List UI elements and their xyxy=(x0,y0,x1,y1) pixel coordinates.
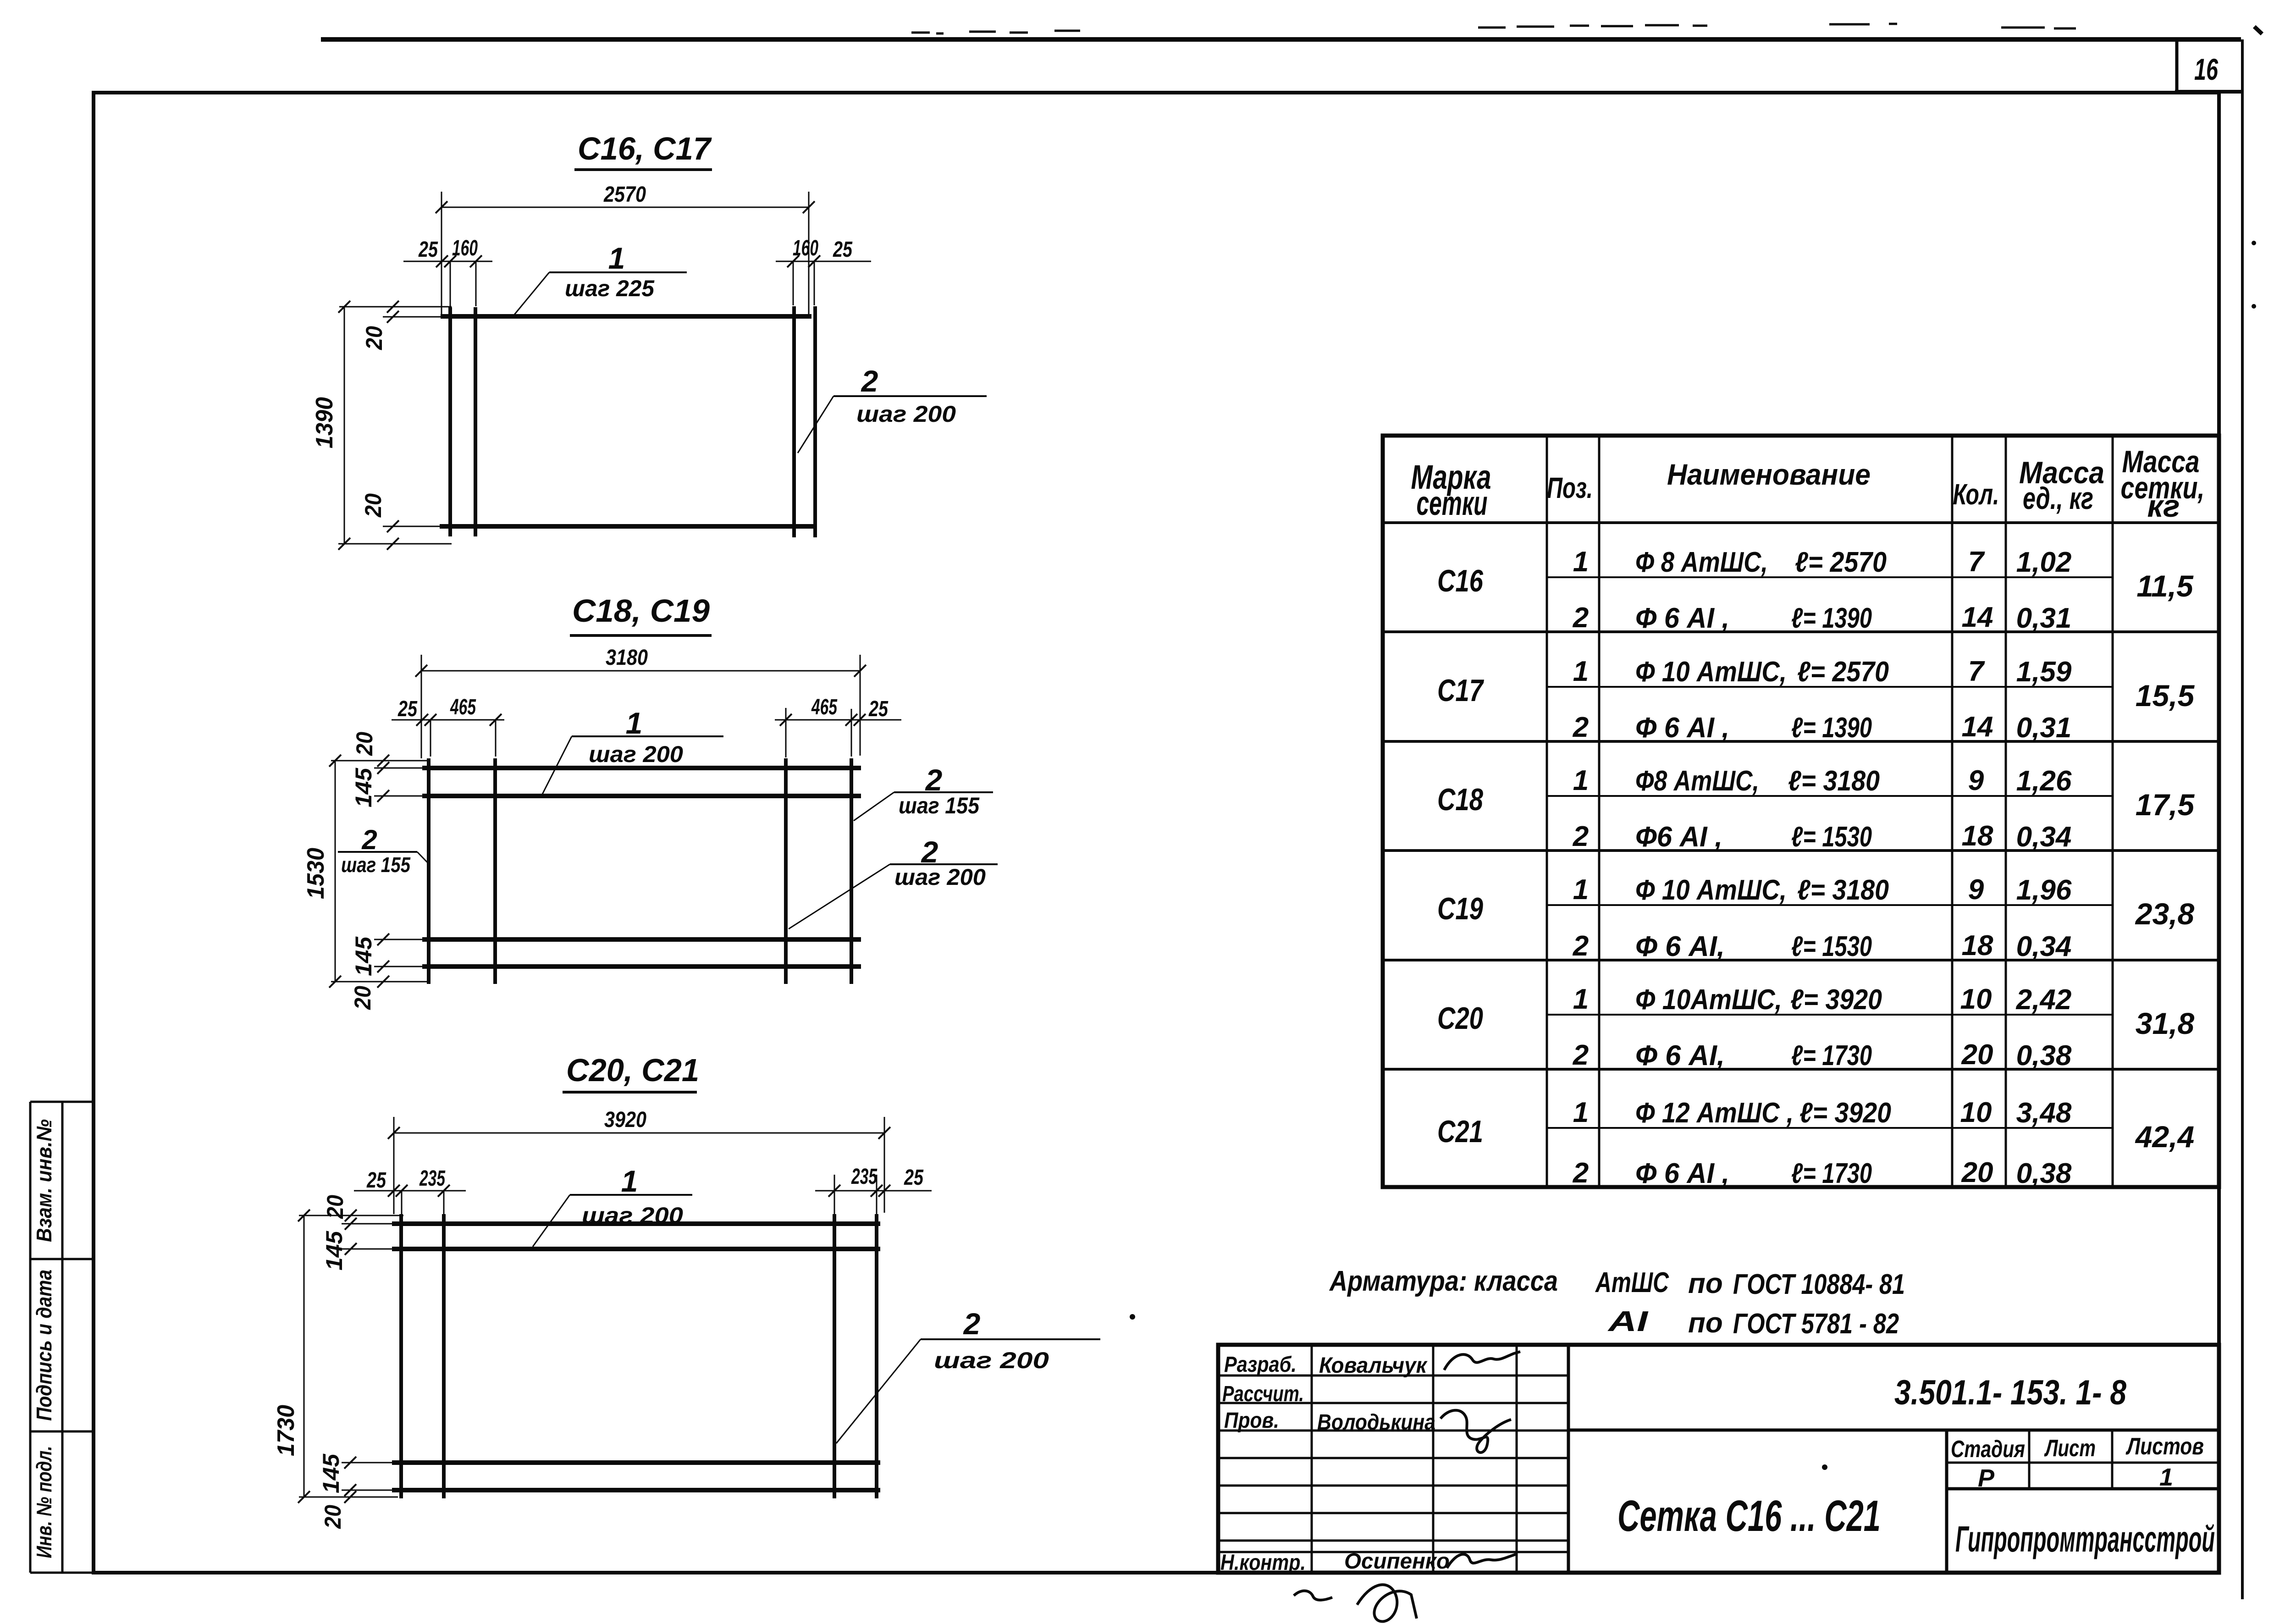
table grid xyxy=(1383,436,2219,1187)
leader pos 2 left xyxy=(338,851,417,853)
svg-text:Стадия: Стадия xyxy=(1951,1436,2025,1463)
leader pos 2 right lower xyxy=(890,863,998,865)
svg-text:7: 7 xyxy=(1968,546,1985,578)
svg-text:ГОСТ 5781 - 82: ГОСТ 5781 - 82 xyxy=(1733,1308,1899,1340)
svg-text:3,48: 3,48 xyxy=(2016,1097,2072,1129)
svg-text:С21: С21 xyxy=(1437,1114,1483,1149)
svg-text:Пров.: Пров. xyxy=(1224,1409,1279,1433)
svg-text:кг: кг xyxy=(2147,489,2180,524)
svg-text:С19: С19 xyxy=(1437,891,1483,926)
svg-text:1390: 1390 xyxy=(311,397,338,448)
svg-text:шаг 155: шаг 155 xyxy=(899,793,980,818)
svg-text:1: 1 xyxy=(1573,874,1589,906)
svg-text:20: 20 xyxy=(320,1505,346,1529)
svg-text:17,5: 17,5 xyxy=(2136,788,2195,822)
svg-text:Р: Р xyxy=(1978,1464,1995,1492)
leader pos 1 xyxy=(572,735,723,737)
dimension 1730 vertical xyxy=(304,1215,305,1497)
svg-text:20: 20 xyxy=(352,732,377,756)
svg-text:1: 1 xyxy=(1573,656,1589,687)
svg-text:20: 20 xyxy=(350,986,375,1010)
dimension 465 25 right xyxy=(775,719,901,721)
svg-text:С18: С18 xyxy=(1437,782,1483,817)
dimension 20 bottom xyxy=(383,526,440,527)
svg-text:шаг 200: шаг 200 xyxy=(856,401,956,427)
svg-text:1,59: 1,59 xyxy=(2016,656,2072,688)
mesh C16 top bar pos1 xyxy=(440,306,817,537)
svg-text:АтШС: АтШС xyxy=(1595,1267,1669,1298)
svg-text:465: 465 xyxy=(811,695,838,719)
svg-text:14: 14 xyxy=(1962,711,1993,743)
svg-text:ℓ= 2570: ℓ= 2570 xyxy=(1795,547,1887,578)
svg-text:Рассчит.: Рассчит. xyxy=(1222,1382,1304,1406)
svg-text:235: 235 xyxy=(419,1166,446,1191)
dimensions 20 145 top xyxy=(342,1223,392,1225)
signature Volodkina xyxy=(1441,1410,1511,1453)
svg-text:465: 465 xyxy=(450,695,476,719)
svg-text:1: 1 xyxy=(1573,1097,1589,1128)
corner mark top right xyxy=(2254,27,2262,34)
svg-text:ℓ= 1730: ℓ= 1730 xyxy=(1791,1040,1872,1072)
svg-text:2570: 2570 xyxy=(603,182,646,207)
svg-text:160: 160 xyxy=(452,236,478,260)
svg-text:1: 1 xyxy=(2159,1464,2173,1491)
svg-text:20: 20 xyxy=(322,1195,348,1219)
svg-text:шаг 200: шаг 200 xyxy=(589,741,683,767)
sheet right edge line xyxy=(2241,39,2244,1599)
svg-text:1: 1 xyxy=(626,706,643,740)
svg-text:Ф8 АтШС,: Ф8 АтШС, xyxy=(1635,765,1759,797)
svg-text:Ф 6 АI ,: Ф 6 АI , xyxy=(1635,1158,1729,1189)
svg-text:1: 1 xyxy=(1573,546,1589,578)
svg-text:20: 20 xyxy=(361,326,387,350)
svg-text:ГОСТ 10884- 81: ГОСТ 10884- 81 xyxy=(1733,1269,1905,1300)
svg-text:2: 2 xyxy=(1573,1039,1589,1071)
svg-text:1,96: 1,96 xyxy=(2016,874,2072,906)
svg-text:АI: АI xyxy=(1607,1306,1649,1337)
leader pos 2 xyxy=(833,395,987,397)
leader pos 1 xyxy=(570,1194,692,1196)
svg-text:160: 160 xyxy=(793,236,818,260)
svg-text:Лист: Лист xyxy=(2044,1435,2096,1462)
svg-text:0,34: 0,34 xyxy=(2016,931,2072,962)
svg-text:Наименование: Наименование xyxy=(1667,458,1871,491)
svg-text:Инв. № подл.: Инв. № подл. xyxy=(32,1446,56,1558)
mesh C20 horizontal bars pos1 xyxy=(392,1214,880,1498)
title block grid xyxy=(1218,1345,2219,1573)
svg-text:14: 14 xyxy=(1962,602,1993,633)
dimension 3920 xyxy=(394,1132,884,1134)
svg-text:25: 25 xyxy=(904,1166,924,1190)
scan dash artifacts top xyxy=(911,24,2076,33)
svg-text:0,31: 0,31 xyxy=(2016,602,2072,634)
stray dots xyxy=(1130,241,2256,1470)
svg-text:235: 235 xyxy=(851,1165,878,1189)
svg-text:1: 1 xyxy=(608,241,625,275)
svg-text:Н.контр.: Н.контр. xyxy=(1220,1551,1306,1575)
svg-text:Ф 10АтШС,: Ф 10АтШС, xyxy=(1635,984,1782,1016)
svg-text:9: 9 xyxy=(1968,765,1984,796)
svg-text:1530: 1530 xyxy=(303,848,329,899)
mesh C20 vertical bars pos2 xyxy=(399,1214,403,1498)
svg-text:0,38: 0,38 xyxy=(2016,1158,2072,1189)
sidebar stamp boxes xyxy=(30,1102,94,1573)
svg-text:3.501.1- 153. 1- 8: 3.501.1- 153. 1- 8 xyxy=(1894,1373,2127,1412)
svg-text:С20, С21: С20, С21 xyxy=(566,1052,699,1088)
leader pos 2 xyxy=(921,1338,1100,1340)
dimension 25 235 left xyxy=(354,1190,466,1192)
mesh C16 vertical bars pos2 xyxy=(448,307,452,536)
svg-text:шаг 200: шаг 200 xyxy=(582,1203,683,1228)
signature Osipenko xyxy=(1447,1554,1516,1568)
svg-text:Ф 10 АтШС,: Ф 10 АтШС, xyxy=(1635,874,1787,906)
svg-text:шаг 225: шаг 225 xyxy=(565,276,655,301)
svg-text:145: 145 xyxy=(318,1453,344,1493)
svg-text:2: 2 xyxy=(1573,821,1589,852)
svg-text:11,5: 11,5 xyxy=(2136,569,2194,603)
svg-text:Сетка С16 ... С21: Сетка С16 ... С21 xyxy=(1617,1491,1881,1541)
svg-text:Арматура: класса: Арматура: класса xyxy=(1329,1265,1558,1297)
page number box xyxy=(2175,39,2179,92)
svg-text:ℓ= 3920: ℓ= 3920 xyxy=(1799,1097,1891,1129)
svg-text:2: 2 xyxy=(361,824,377,855)
svg-text:Ф 6 АI ,: Ф 6 АI , xyxy=(1635,712,1729,744)
svg-text:Ф 12 АтШС ,: Ф 12 АтШС , xyxy=(1635,1097,1794,1129)
mesh C16 bottom bar pos1 xyxy=(440,524,817,529)
svg-text:Подпись и дата: Подпись и дата xyxy=(32,1270,56,1421)
svg-text:С18, С19: С18, С19 xyxy=(572,593,710,629)
svg-text:ℓ= 2570: ℓ= 2570 xyxy=(1797,656,1889,688)
svg-text:Ф 6 АI,: Ф 6 АI, xyxy=(1635,931,1725,962)
dimension 3180 xyxy=(421,670,860,672)
svg-text:25: 25 xyxy=(366,1168,386,1193)
svg-text:145: 145 xyxy=(351,768,376,807)
svg-text:Володькина: Володькина xyxy=(1317,1410,1435,1435)
svg-text:ℓ= 1390: ℓ= 1390 xyxy=(1791,602,1872,634)
svg-text:25: 25 xyxy=(833,238,853,262)
svg-text:ℓ= 1530: ℓ= 1530 xyxy=(1791,821,1872,853)
svg-text:20: 20 xyxy=(1961,1157,1993,1188)
dimension 160 25 right xyxy=(776,261,871,262)
svg-text:1,02: 1,02 xyxy=(2016,547,2072,578)
dimensions 20 145 left top xyxy=(374,768,422,769)
svg-text:сетки: сетки xyxy=(1417,484,1488,522)
svg-text:1: 1 xyxy=(1573,765,1589,796)
svg-text:2: 2 xyxy=(861,364,878,398)
svg-text:2,42: 2,42 xyxy=(2016,984,2072,1016)
svg-text:1730: 1730 xyxy=(273,1405,299,1456)
dimensions 145 20 left bottom xyxy=(374,939,422,940)
svg-text:С16, С17: С16, С17 xyxy=(578,131,712,166)
svg-text:31,8: 31,8 xyxy=(2136,1006,2195,1040)
svg-text:Листов: Листов xyxy=(2125,1433,2204,1460)
svg-text:2: 2 xyxy=(921,835,938,869)
dimension 2570 xyxy=(442,207,809,208)
dimensions 145 20 bottom xyxy=(342,1462,392,1464)
svg-text:С17: С17 xyxy=(1437,673,1485,708)
svg-text:ℓ= 3920: ℓ= 3920 xyxy=(1790,984,1882,1016)
dimension 1390 vertical xyxy=(344,307,345,544)
svg-text:1,26: 1,26 xyxy=(2016,765,2072,797)
svg-text:по: по xyxy=(1688,1268,1723,1299)
svg-text:Ф 6 АI ,: Ф 6 АI , xyxy=(1635,602,1729,634)
dimension 1530 vertical xyxy=(335,761,336,982)
svg-text:10: 10 xyxy=(1960,1097,1992,1128)
svg-text:Осипенко: Осипенко xyxy=(1344,1549,1450,1574)
svg-text:1: 1 xyxy=(621,1164,638,1198)
svg-text:Ф6 АI ,: Ф6 АI , xyxy=(1635,821,1722,853)
svg-text:Ковальчук: Ковальчук xyxy=(1319,1353,1428,1378)
svg-text:10: 10 xyxy=(1960,983,1992,1015)
svg-text:Ф 10 АтШС,: Ф 10 АтШС, xyxy=(1635,656,1787,688)
svg-text:шаг 200: шаг 200 xyxy=(934,1348,1049,1373)
svg-text:25: 25 xyxy=(397,697,418,721)
svg-text:ℓ= 1390: ℓ= 1390 xyxy=(1791,712,1872,744)
svg-text:Поз.: Поз. xyxy=(1547,471,1593,504)
svg-text:7: 7 xyxy=(1968,656,1985,687)
svg-text:23,8: 23,8 xyxy=(2135,897,2195,931)
mesh C18 vertical bars pos2 xyxy=(427,758,431,984)
svg-text:16: 16 xyxy=(2194,52,2219,86)
svg-text:25: 25 xyxy=(868,697,889,721)
svg-text:0,38: 0,38 xyxy=(2016,1040,2072,1072)
svg-text:25: 25 xyxy=(418,238,438,262)
svg-text:шаг 200: шаг 200 xyxy=(894,864,986,890)
svg-text:18: 18 xyxy=(1962,820,1993,852)
leader pos 2 right upper xyxy=(894,791,993,793)
svg-text:Взам. инв.№: Взам. инв.№ xyxy=(32,1119,56,1242)
svg-text:15,5: 15,5 xyxy=(2136,679,2195,713)
svg-text:2: 2 xyxy=(925,763,943,797)
svg-text:ℓ= 3180: ℓ= 3180 xyxy=(1797,874,1889,906)
svg-text:Ф 8 АтШС,: Ф 8 АтШС, xyxy=(1635,547,1768,578)
svg-text:2: 2 xyxy=(963,1307,981,1341)
svg-text:145: 145 xyxy=(321,1231,347,1270)
stray signature below block xyxy=(1294,1585,1417,1621)
leader pos 1 xyxy=(549,271,687,273)
svg-text:42,4: 42,4 xyxy=(2135,1120,2194,1154)
svg-text:2: 2 xyxy=(1573,602,1589,634)
svg-text:18: 18 xyxy=(1962,930,1993,961)
svg-text:9: 9 xyxy=(1968,874,1984,906)
svg-text:ед., кг: ед., кг xyxy=(2023,481,2093,516)
svg-text:Ф 6 АI,: Ф 6 АI, xyxy=(1635,1040,1725,1072)
svg-text:Разраб.: Разраб. xyxy=(1224,1353,1297,1377)
svg-text:2: 2 xyxy=(1573,930,1589,962)
svg-text:1: 1 xyxy=(1573,983,1589,1015)
svg-text:2: 2 xyxy=(1573,1157,1589,1189)
svg-text:ℓ= 1730: ℓ= 1730 xyxy=(1791,1158,1872,1189)
dimension 25 160 left xyxy=(403,261,492,262)
svg-text:шаг 155: шаг 155 xyxy=(341,853,411,877)
svg-text:С20: С20 xyxy=(1437,1001,1483,1036)
svg-text:Кол.: Кол. xyxy=(1953,478,1999,511)
dimension 25 465 left xyxy=(392,719,504,721)
svg-text:0,31: 0,31 xyxy=(2016,712,2072,744)
mesh C18 horizontal bars pos1 xyxy=(422,758,861,984)
svg-text:Гипропромтрансстрой: Гипропромтрансстрой xyxy=(1955,1519,2215,1559)
svg-text:2: 2 xyxy=(1573,712,1589,743)
svg-text:145: 145 xyxy=(351,936,376,976)
svg-text:3920: 3920 xyxy=(604,1108,646,1132)
svg-text:ℓ= 1530: ℓ= 1530 xyxy=(1791,931,1872,962)
signature Kovalchuk xyxy=(1294,1352,1520,1622)
svg-text:20: 20 xyxy=(360,493,386,518)
svg-text:по: по xyxy=(1688,1307,1723,1339)
svg-text:0,34: 0,34 xyxy=(2016,821,2072,853)
svg-text:3180: 3180 xyxy=(606,646,648,670)
svg-text:ℓ= 3180: ℓ= 3180 xyxy=(1788,765,1880,797)
dimension 20 top xyxy=(383,316,441,318)
svg-text:С16: С16 xyxy=(1437,563,1484,598)
dimension 235 25 right xyxy=(815,1190,932,1192)
sheet top edge line xyxy=(321,37,2241,42)
svg-text:20: 20 xyxy=(1961,1039,1993,1071)
